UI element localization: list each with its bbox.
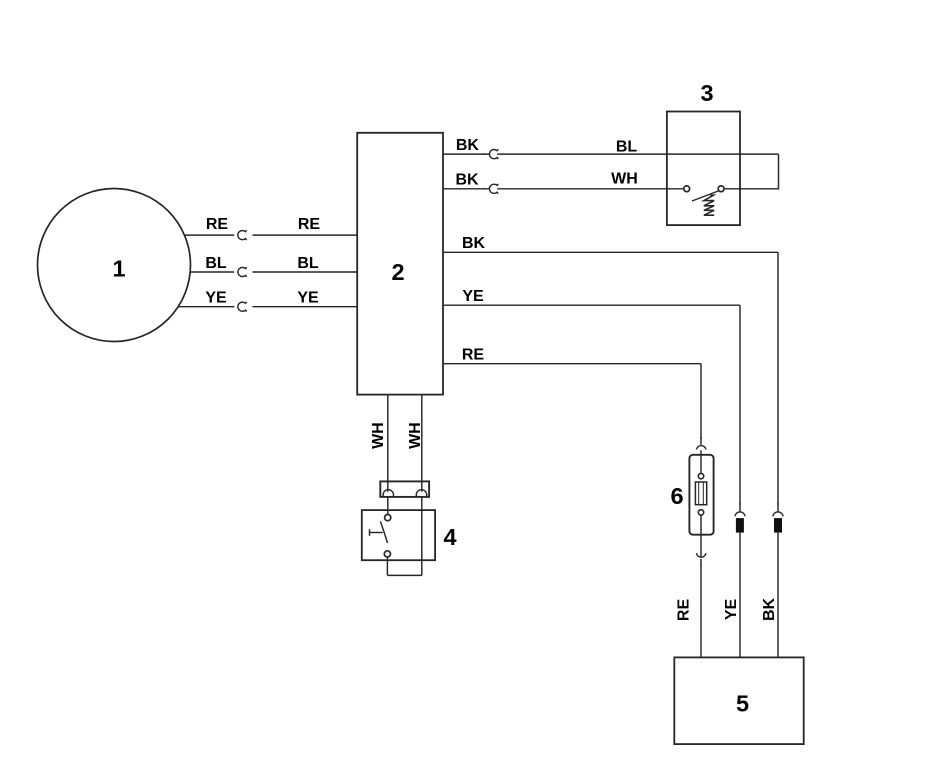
wire through component 4 (421, 497, 423, 576)
connector on BL wire (238, 267, 247, 277)
connector on second BK wire (489, 184, 498, 194)
component 3 (switch box) (667, 80, 740, 225)
contact (bottom) in component 4 (384, 551, 390, 557)
contact (right) in component 3 (718, 186, 724, 192)
wire BK vertical (777, 252, 779, 511)
wire BK to component 5 (777, 533, 779, 658)
svg-text:RE: RE (675, 599, 692, 622)
bullet connector on BK wire (773, 503, 783, 532)
wire RE vertical to fuse (700, 364, 702, 445)
svg-text:WH: WH (611, 171, 638, 188)
component 1 (generator circle) (38, 189, 191, 342)
switch lever in component 4 (380, 522, 387, 543)
fuse contact (top) (698, 473, 703, 478)
component 4 (toggle switch box) (362, 510, 457, 560)
component 5 (load box) (674, 657, 803, 744)
connector on RE wire (238, 230, 247, 240)
fuse element (695, 482, 706, 505)
connector on top BK wire (489, 149, 498, 159)
wire loop right of component 3 (724, 154, 779, 189)
switch lever in component 3 (692, 191, 718, 201)
wire BL to component 2 (253, 271, 358, 273)
fuse connector arch (top) (696, 446, 706, 450)
svg-text:YE: YE (297, 290, 319, 307)
svg-text:1: 1 (112, 256, 125, 282)
svg-text:RE: RE (462, 347, 485, 364)
svg-text:RE: RE (298, 216, 321, 233)
contact (left) in component 3 (684, 186, 690, 192)
wire BL from component 1 (190, 271, 234, 273)
wire WH to component 3 (497, 188, 684, 190)
svg-text:BK: BK (761, 598, 778, 622)
wire RE to component 5 (700, 559, 702, 658)
wire YE to component 2 (253, 306, 358, 308)
wire YE from component 2 (right) (443, 304, 740, 306)
wire BK (third) from component 2 (443, 251, 778, 253)
svg-text:BK: BK (462, 235, 486, 252)
wire YE to component 5 (739, 533, 741, 658)
fuse contact (bottom) (698, 510, 703, 515)
wire from bottom contact of component 4 (386, 557, 388, 575)
svg-text:WH: WH (370, 422, 387, 449)
svg-text:BK: BK (455, 172, 479, 189)
svg-text:5: 5 (736, 691, 749, 717)
wire WH (right) from component 2 bottom (421, 395, 423, 492)
svg-text:BL: BL (616, 139, 638, 156)
wire RE from component 2 (right) (443, 363, 701, 365)
svg-text:BL: BL (205, 255, 227, 272)
component 6 (fuse holder) (670, 455, 713, 535)
wire WH (left) from component 2 bottom (387, 395, 389, 492)
svg-text:YE: YE (462, 288, 484, 305)
fuse connector cup (bottom) (696, 553, 706, 557)
spring in component 3 (704, 195, 714, 215)
svg-text:3: 3 (700, 80, 713, 106)
svg-text:YE: YE (205, 290, 227, 307)
svg-text:BK: BK (456, 137, 480, 154)
wire RE to component 2 (253, 234, 358, 236)
wire into component 4 (387, 497, 389, 515)
wire YE vertical (739, 305, 741, 511)
connector block above component 4 (380, 481, 429, 497)
contact (top) in component 4 (385, 515, 391, 521)
wire inside fuse holder (bottom) (700, 515, 702, 556)
component 2 (CDI box) (357, 133, 443, 395)
svg-text:6: 6 (670, 483, 683, 509)
svg-text:YE: YE (723, 599, 740, 621)
wire BL through component 3 (497, 153, 778, 155)
wire BK (second) from component 2 (443, 188, 490, 190)
bullet connector on YE wire (735, 503, 745, 532)
svg-text:4: 4 (443, 524, 456, 550)
svg-text:RE: RE (206, 216, 229, 233)
wire inside fuse holder (top) (700, 450, 702, 473)
svg-text:WH: WH (407, 422, 424, 449)
actuator in component 4 (370, 529, 383, 536)
svg-text:BL: BL (297, 255, 319, 272)
connector on YE wire (238, 302, 247, 312)
wire loop below component 4 (387, 574, 421, 576)
wire BK (top) from component 2 (443, 153, 490, 155)
wire YE from component 1 (178, 306, 234, 308)
wire RE from component 1 (184, 234, 234, 236)
svg-text:2: 2 (391, 259, 404, 285)
